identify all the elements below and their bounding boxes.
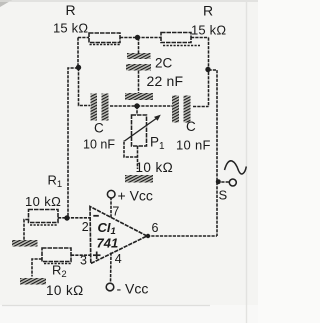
svg-text:7: 7	[112, 205, 119, 219]
sine wave symbol	[225, 161, 247, 174]
resistor R (top right) 15k box	[161, 33, 200, 46]
svg-text:10 kΩ: 10 kΩ	[25, 194, 61, 209]
wire: left rail to C-C chain	[79, 68, 91, 106]
wire: C-C chain mid-right segment	[137, 105, 172, 107]
capacitor 2C plate 1	[127, 53, 151, 59]
scan edge line bottom	[2, 305, 210, 307]
wire: top rail right lead	[191, 37, 209, 39]
svg-text:+ Vcc: + Vcc	[118, 188, 153, 204]
capacitor C left plate 1	[91, 94, 98, 121]
capacitor 2C plate 2	[126, 64, 151, 71]
svg-text:4: 4	[115, 252, 122, 266]
op-amp U1 triangle	[90, 207, 147, 264]
op-amp plus sign	[93, 252, 101, 260]
wire: top rail left lead	[78, 37, 89, 39]
node M1 junction dot	[135, 35, 140, 40]
svg-text:C: C	[94, 121, 104, 136]
resistor R1 box	[29, 210, 59, 226]
wire: between top resistors	[120, 37, 161, 39]
wire: R2 right lead to pin 3	[71, 254, 90, 256]
+Vcc terminal circle	[107, 190, 115, 198]
svg-text:S: S	[219, 188, 228, 203]
node B junction dot	[205, 67, 210, 72]
svg-text:10 nF: 10 nF	[176, 138, 211, 153]
-Vcc terminal circle	[106, 283, 114, 291]
svg-text:15 kΩ: 15 kΩ	[191, 23, 226, 38]
svg-text:22 nF: 22 nF	[147, 73, 184, 89]
svg-text:15 kΩ: 15 kΩ	[53, 21, 88, 36]
output terminal S circle	[229, 179, 236, 186]
svg-text:6: 6	[152, 221, 159, 235]
wire: P1 bottom lead to ground	[137, 146, 139, 169]
op-amp minus sign	[93, 215, 99, 217]
wire: branch to inverting input rail	[68, 68, 78, 218]
svg-text:- Vcc: - Vcc	[117, 281, 149, 297]
wire: C-C chain right lead	[193, 106, 209, 108]
ground (P1)	[125, 175, 153, 183]
svg-text:2C: 2C	[155, 56, 173, 71]
wire: R1 right lead to pin 2	[58, 217, 90, 219]
potentiometer P1 box	[132, 115, 147, 146]
svg-text:2: 2	[82, 220, 89, 234]
ground (2C)	[125, 93, 153, 100]
svg-text:10 kΩ: 10 kΩ	[46, 283, 84, 298]
wire: P1 top lead	[136, 106, 138, 115]
wire: left rail upper (node A)	[77, 38, 79, 69]
potentiometer P1 wiper arrow	[125, 115, 161, 141]
ground (R2)	[20, 278, 46, 285]
svg-text:10 nF: 10 nF	[83, 138, 115, 152]
svg-text:10 kΩ: 10 kΩ	[136, 160, 174, 175]
node pin2 junction dot	[64, 215, 69, 220]
wire: pin 7 lead to +Vcc	[110, 198, 112, 218]
wire: feedback branch from node B to output rail	[209, 70, 218, 236]
wire: pin 4 lead to -Vcc	[110, 253, 113, 284]
scan edge line right	[246, 0, 248, 323]
capacitor C right plate 1	[172, 96, 179, 123]
ground (R1)	[12, 240, 38, 247]
node A junction dot	[76, 65, 81, 70]
svg-text:741: 741	[97, 236, 119, 251]
wire: R1 left lead to ground	[24, 220, 29, 241]
wire: output terminal S lead	[217, 181, 230, 183]
node M2 junction dot	[134, 103, 139, 108]
node pin6 junction dot	[146, 234, 150, 238]
wire: C-C chain left-mid segment	[110, 105, 137, 107]
wire: 2C top lead from node M1	[138, 38, 140, 54]
node S junction dot	[216, 179, 221, 184]
capacitor C right plate 2	[184, 96, 191, 123]
scan edge line top	[0, 0, 258, 2]
wire: R2 left lead to ground	[32, 259, 42, 277]
resistor R (top left) 15k box	[89, 33, 120, 45]
svg-text:R: R	[203, 3, 213, 19]
wire: P1 wiper tie	[124, 140, 138, 157]
wire: op-amp output pin 6	[147, 235, 217, 237]
wire: right rail node B	[208, 38, 210, 107]
svg-text:3: 3	[80, 254, 87, 268]
svg-text:C: C	[186, 119, 196, 134]
svg-text:R: R	[66, 2, 76, 18]
scan corner blotch	[0, 0, 12, 7]
resistor R2 box	[42, 248, 71, 264]
capacitor C left plate 2	[102, 94, 109, 121]
wire: 2C bottom lead to ground	[138, 71, 140, 94]
